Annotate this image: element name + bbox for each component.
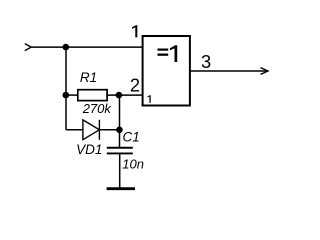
node B junction resistor left — [63, 92, 70, 99]
svg-text:10n: 10n — [122, 157, 144, 172]
diode VD1 triangle — [83, 120, 100, 140]
output arrow — [261, 68, 268, 75]
wire vertical left bus — [65, 47, 67, 130]
node C junction resistor right — [116, 92, 123, 99]
svg-text:VD1: VD1 — [76, 142, 102, 157]
svg-text:2: 2 — [130, 75, 140, 96]
capacitor C1 bottom plate — [107, 152, 133, 154]
pin label 1 — [132, 25, 137, 37]
input arrow — [25, 44, 31, 51]
gate label =1 equals bars — [158, 49, 169, 51]
ground — [107, 187, 135, 190]
capacitor C1 top plate — [107, 147, 133, 149]
wire diode cathode lead — [99, 129, 119, 131]
diode VD1 cathode bar — [98, 120, 100, 140]
pin label 1 inner — [147, 95, 150, 103]
svg-text:270k: 270k — [82, 101, 113, 116]
wire input horizontal to pin 1 — [31, 46, 143, 48]
svg-text:R1: R1 — [80, 70, 97, 85]
svg-text:3: 3 — [201, 51, 211, 72]
wire resistor left lead — [66, 94, 78, 96]
wire output — [190, 70, 268, 72]
wire capacitor to ground — [119, 154, 121, 188]
node A junction input — [63, 44, 70, 51]
node D junction diode cathode — [116, 127, 123, 134]
gate U1 box — [143, 36, 190, 106]
resistor R1 body — [78, 90, 107, 101]
gate label =1 digit one — [170, 45, 177, 62]
svg-text:C1: C1 — [122, 130, 139, 145]
wire resistor right lead to pin 2 — [107, 94, 143, 96]
wire diode anode lead — [66, 129, 83, 131]
wire vertical to capacitor — [119, 95, 121, 148]
